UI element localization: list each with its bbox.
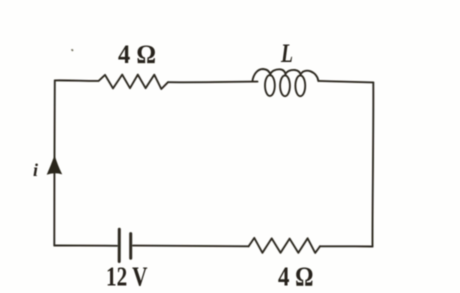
resistor R1 4 ohm (top) — [99, 75, 168, 89]
svg-text:12 V: 12 V — [106, 262, 148, 292]
wire: bottom segment left of battery — [54, 245, 117, 247]
svg-text:L: L — [280, 39, 293, 68]
current arrow on left wire — [47, 155, 63, 175]
wire: bottom segment right of resistor — [320, 245, 373, 247]
wire: right vertical — [371, 82, 374, 246]
battery 12 V — [119, 229, 131, 261]
svg-text:4 Ω: 4 Ω — [278, 262, 314, 292]
svg-text:i: i — [33, 160, 38, 180]
wire: left vertical — [53, 80, 56, 245]
wire: top segment left of resistor — [55, 79, 98, 82]
wire: top segment between resistor and inductor — [168, 81, 258, 84]
resistor R2 4 ohm (bottom) — [249, 238, 320, 253]
svg-text:4 Ω: 4 Ω — [118, 40, 156, 69]
wire: top segment right of inductor — [318, 81, 373, 83]
inductor L — [252, 69, 318, 96]
wire: bottom segment between battery and resistor — [133, 245, 249, 248]
